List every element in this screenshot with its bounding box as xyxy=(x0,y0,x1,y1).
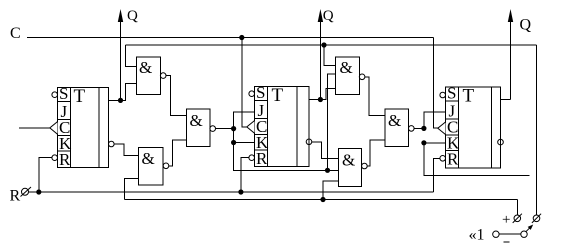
wire D1 output to gate D3 upper input xyxy=(166,76,187,116)
svg-text:T: T xyxy=(272,85,284,106)
gate D5 AND-NOT upper middle xyxy=(335,57,359,94)
wire T3 junction to FF3 K input xyxy=(424,142,446,144)
wire FF2 Q-bar to gate D4 upper input xyxy=(312,142,339,159)
svg-text:C: C xyxy=(10,25,21,42)
terminal X1 plus xyxy=(513,214,522,223)
wire output Q1 with arrow xyxy=(120,14,122,100)
wire output Q2 with arrow xyxy=(319,14,321,100)
node junction D6 output xyxy=(421,126,426,131)
wire FF1 Q-bar to gate D2 upper input xyxy=(114,144,138,156)
flip-flop FF3 xyxy=(446,84,501,169)
wire C line branch down to FF2 C pin xyxy=(242,38,247,127)
svg-text:&: & xyxy=(388,111,401,130)
gate D1 AND-NOT upper left xyxy=(137,57,161,95)
node R input label xyxy=(10,188,21,205)
pin FF2 R bubble xyxy=(249,155,255,161)
gate D6 AND-NOT middle right xyxy=(385,109,409,146)
wire R branch to FF2 R pin xyxy=(241,158,249,192)
pin D2 output bubble xyxy=(163,163,169,169)
svg-text:S: S xyxy=(447,84,456,103)
node junction C line to FF2 xyxy=(239,35,244,40)
wire C line end down to FF3 C pin xyxy=(434,38,438,129)
pin FF2 inverse output bubble xyxy=(306,139,312,145)
pin FF3 R bubble xyxy=(440,156,446,162)
svg-text:&: & xyxy=(340,58,353,77)
svg-text:«1: «1 xyxy=(469,227,485,244)
wire D2 output to gate D3 lower input xyxy=(169,140,187,166)
node junction Q1 xyxy=(118,98,123,103)
node junction R to FF1 xyxy=(36,189,41,194)
wire T2 column down and right to gate D4 second input xyxy=(234,129,339,171)
pin FF2 C dynamic triangle xyxy=(247,121,255,134)
wire Q2 junction staircase to gate D5 third input xyxy=(320,89,335,100)
wire D4 lower input from pulse line xyxy=(323,181,338,200)
svg-text:&: & xyxy=(190,111,203,130)
wire T2 column to FF2 J input xyxy=(234,112,255,129)
svg-text:Q: Q xyxy=(323,8,334,24)
pin D3 output bubble xyxy=(210,126,216,132)
svg-text:R: R xyxy=(10,188,21,205)
wire feedback line 1 xyxy=(125,44,536,46)
gate D4 AND-NOT lower middle xyxy=(338,149,361,187)
wire T3 column down and right open end xyxy=(424,143,529,176)
svg-text:S: S xyxy=(59,84,68,103)
gate D3 AND-NOT middle left xyxy=(187,109,210,147)
svg-text:Q: Q xyxy=(520,17,532,34)
pin FF1 R bubble xyxy=(52,155,58,161)
flip-flop FF2 xyxy=(255,83,310,168)
wire feedback line right end down to terminal X2 xyxy=(536,45,538,215)
svg-text:&: & xyxy=(342,151,355,170)
svg-text:R: R xyxy=(256,149,268,168)
svg-text:&: & xyxy=(139,58,152,77)
node junction T3 to K xyxy=(421,140,426,145)
node C input label xyxy=(10,25,21,42)
pin FF3 inverse output bubble xyxy=(498,139,504,145)
pin FF1 C dynamic triangle xyxy=(50,122,58,135)
node logic one label xyxy=(469,227,485,244)
wire Q1 junction to gate D1 lower input xyxy=(121,84,137,101)
terminal X2 xyxy=(532,214,541,223)
svg-text:T: T xyxy=(463,86,475,107)
svg-text:S: S xyxy=(256,83,265,102)
pin FF1 S bubble xyxy=(52,92,58,98)
switch SA contact left xyxy=(493,231,499,237)
node plus label xyxy=(502,212,510,228)
node junction feedback line to gate D5 xyxy=(321,42,326,47)
node junction pulse line to D4 xyxy=(320,197,325,202)
wire feedback line left end to gate D1 upper input xyxy=(125,45,136,66)
wire D2 lower input from pulse line xyxy=(125,179,139,200)
svg-text:Q: Q xyxy=(127,8,138,24)
svg-text:+: + xyxy=(502,212,510,228)
wire C clock line xyxy=(27,37,434,39)
svg-text:R: R xyxy=(447,150,459,169)
wire switch bar xyxy=(499,233,521,235)
pin FF3 C dynamic triangle xyxy=(438,122,446,135)
pin D4 output bubble xyxy=(362,163,368,169)
gate D2 AND-NOT lower left xyxy=(138,147,163,185)
pin FF2 S bubble xyxy=(249,91,255,97)
wire R line end up to FF3 R pin xyxy=(434,158,440,192)
wire FF1 Q pin to junction xyxy=(109,99,121,101)
svg-text:T: T xyxy=(74,86,86,107)
node junction R to FF2 xyxy=(238,189,243,194)
wire FF3 Q pin to Q3 riser xyxy=(501,98,511,100)
pin D1 output bubble xyxy=(160,73,166,79)
node minus label xyxy=(504,241,510,243)
wire D5 output to gate D6 upper input xyxy=(365,77,385,116)
svg-text:&: & xyxy=(142,149,155,168)
pin FF1 inverse output bubble xyxy=(109,141,115,147)
wire pulse line xyxy=(125,199,518,201)
wire output Q3 with arrow xyxy=(510,14,512,99)
wire T3 column to FF3 J input xyxy=(424,112,446,128)
pin FF3 S bubble xyxy=(440,92,446,98)
wire feedback branch to gate D5 upper input xyxy=(324,45,335,66)
wire D6 output to junction column xyxy=(414,127,424,129)
wire T2 junction to FF2 K input xyxy=(234,142,255,144)
wire FF1 C input stub xyxy=(19,127,50,129)
node junction Q2 xyxy=(318,97,323,102)
svg-text:R: R xyxy=(59,150,71,169)
switch SA actuator arrow xyxy=(526,225,533,232)
wire D4 output to gate D6 lower input xyxy=(367,140,385,166)
node junction D3 output xyxy=(231,126,236,131)
node junction T2 to K xyxy=(231,140,236,145)
wire D3 output to junction column xyxy=(216,128,234,130)
pin D5 output bubble xyxy=(359,74,365,80)
wire FF2 Q pin to junction xyxy=(309,99,320,101)
wire pulse line end down to terminal X1 xyxy=(516,200,518,216)
pin D6 output bubble xyxy=(409,126,415,132)
node junction T2 line to gate D5 xyxy=(325,168,330,173)
wire T2 line branch up to gate D5 second input xyxy=(328,74,336,170)
wire R branch to FF1 R pin xyxy=(39,158,52,192)
wire R reset line xyxy=(29,191,434,193)
switch SA contact right xyxy=(521,231,527,237)
terminal R input xyxy=(21,187,32,197)
flip-flop FF1 xyxy=(58,84,109,169)
